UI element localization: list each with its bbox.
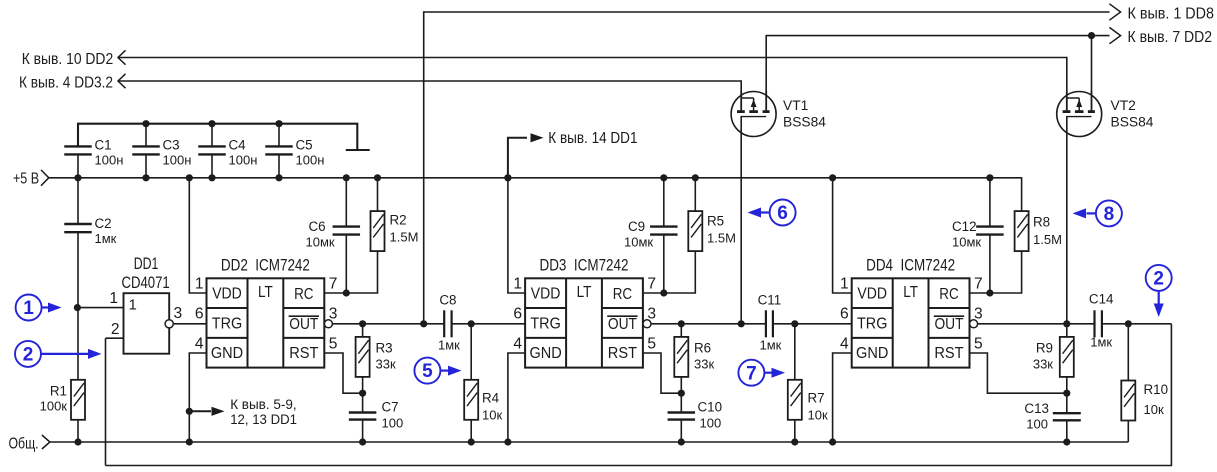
wire DD2 OUT to C8 — [333, 323, 444, 325]
svg-text:7: 7 — [746, 363, 757, 384]
svg-text:7: 7 — [647, 276, 656, 293]
junction ground R1 — [74, 438, 81, 445]
svg-text:DD3 ICM7242: DD3 ICM7242 — [540, 256, 629, 274]
svg-text:К выв. 1 DD8: К выв. 1 DD8 — [1128, 5, 1215, 22]
arrow К выв. 5-9 12 13 DD1 — [189, 410, 211, 412]
svg-text:R3: R3 — [376, 340, 393, 355]
circled node 2 output — [1146, 265, 1172, 291]
wire R1 top lead — [77, 308, 79, 380]
svg-text:1мк: 1мк — [438, 337, 460, 352]
junction ground C13 — [1063, 438, 1070, 445]
resistor R9 — [1060, 337, 1074, 377]
wire C6 bottom lead — [345, 235, 347, 293]
junction rail DD4 VDD feed — [829, 174, 836, 181]
capacitor C9 — [650, 227, 678, 235]
junction ground C7 — [359, 438, 366, 445]
svg-text:C4: C4 — [229, 138, 247, 153]
wire R10 bottom lead — [1127, 421, 1129, 443]
svg-text:RC: RC — [613, 286, 632, 303]
svg-text:R6: R6 — [694, 340, 711, 355]
IC timer DD3 ICM7242 — [525, 278, 651, 367]
svg-text:1мк: 1мк — [1090, 334, 1112, 349]
circled node 2 — [15, 341, 41, 367]
svg-text:BSS84: BSS84 — [1111, 115, 1154, 130]
arrow node 2 — [41, 353, 89, 355]
wire C5 top lead — [278, 124, 280, 146]
circled node 5 — [414, 358, 440, 384]
svg-text:RC: RC — [294, 286, 313, 303]
arrow node 8 — [1087, 212, 1097, 214]
wire C10 bottom lead — [680, 420, 682, 442]
svg-text:1: 1 — [23, 298, 34, 319]
svg-text:6: 6 — [513, 305, 522, 322]
svg-text:3: 3 — [974, 305, 983, 322]
wire DD1 pin2 feedback vertical — [105, 338, 107, 465]
wire R3 bottom lead — [362, 377, 364, 393]
wire DD3 RC pin7 — [643, 292, 664, 294]
chassis terminal bar — [346, 149, 370, 151]
svg-text:R1: R1 — [50, 383, 67, 398]
svg-text:1: 1 — [195, 276, 204, 293]
wire C13 bottom lead — [1066, 420, 1068, 442]
wire net to pin4 DD3.2 horizontal — [118, 80, 741, 82]
svg-text:К выв. 7 DD2: К выв. 7 DD2 — [1128, 29, 1213, 46]
svg-text:C13: C13 — [1024, 401, 1049, 416]
wire R8 top lead — [1021, 177, 1023, 211]
node К выв. 4 DD3.2 chevron — [118, 74, 126, 88]
svg-text:R2: R2 — [390, 213, 407, 228]
junction rail R5 — [692, 174, 699, 181]
wire VT2 drain down from pin7 DD2 net — [1091, 36, 1093, 92]
wire +5V rail — [49, 177, 1022, 179]
circled node 7 — [738, 360, 764, 386]
svg-text:C6: C6 — [309, 219, 326, 234]
wire net to pin7 DD2 horizontal — [766, 35, 1109, 37]
arrow node 6 — [761, 211, 770, 213]
svg-text:5: 5 — [974, 335, 983, 352]
wire DD3 VDD feed — [508, 178, 525, 293]
svg-text:1.5M: 1.5M — [707, 231, 736, 246]
wire C11 to DD4 TRG — [773, 323, 852, 325]
svg-text:C3: C3 — [163, 138, 180, 153]
junction DD4 RC node — [986, 289, 993, 296]
capacitor C10 — [668, 413, 696, 420]
arrow node 7 — [764, 372, 772, 374]
svg-text:5: 5 — [647, 335, 656, 352]
junction C4 bus — [208, 120, 215, 127]
svg-text:1мк: 1мк — [759, 337, 781, 352]
svg-text:2: 2 — [23, 345, 34, 366]
wire DD1 output to DD2 TRG — [173, 323, 206, 325]
svg-text:C1: C1 — [95, 138, 112, 153]
wire C14 to output corner — [1102, 323, 1172, 325]
wire DD2 GND lead — [189, 353, 206, 442]
junction DD3 RC node — [660, 289, 667, 296]
wire R5 top lead — [694, 178, 696, 211]
junction ground R7 — [791, 438, 798, 445]
svg-text:7: 7 — [329, 276, 338, 293]
wire R7 top lead — [794, 324, 796, 380]
svg-text:C2: C2 — [95, 216, 112, 231]
arrow node 2 output — [1158, 291, 1160, 304]
svg-text:C8: C8 — [439, 292, 456, 307]
svg-text:C14: C14 — [1089, 291, 1114, 306]
svg-text:LT: LT — [577, 284, 592, 301]
svg-text:33к: 33к — [376, 356, 396, 371]
wire VT1 gate down — [740, 117, 742, 324]
resistor R4 — [464, 380, 478, 420]
svg-text:4: 4 — [840, 335, 849, 352]
arrow node 5 — [440, 370, 449, 372]
wire R6 bottom lead — [680, 377, 682, 393]
junction R6 top — [678, 320, 685, 327]
svg-text:1: 1 — [109, 290, 118, 307]
svg-text:VDD: VDD — [531, 286, 561, 303]
svg-text:C10: C10 — [698, 400, 723, 415]
capacitor C7 — [349, 413, 377, 420]
circled node 6 — [770, 200, 796, 226]
junction rail C12 — [986, 174, 993, 181]
svg-text:100: 100 — [700, 416, 722, 431]
junction R6 C10 — [678, 390, 685, 397]
svg-text:VT1: VT1 — [783, 98, 808, 113]
svg-text:RST: RST — [934, 345, 963, 362]
svg-text:6: 6 — [777, 203, 788, 224]
capacitor C11 — [766, 310, 773, 337]
svg-text:1мк: 1мк — [95, 231, 117, 246]
svg-text:100н: 100н — [163, 153, 192, 168]
svg-text:TRG: TRG — [212, 316, 242, 333]
svg-text:RC: RC — [939, 286, 958, 303]
svg-text:TRG: TRG — [530, 316, 560, 333]
junction VT2 drain to net — [1088, 32, 1095, 39]
wire DD3 OUT to C11 — [651, 323, 766, 325]
junction ground C10 — [678, 438, 685, 445]
wire C2 top lead — [77, 178, 79, 224]
svg-text:R8: R8 — [1033, 215, 1050, 230]
wire R4 bottom lead — [470, 420, 472, 442]
svg-text:2: 2 — [1153, 269, 1164, 290]
wire DD2 RC pin7 — [324, 292, 346, 294]
svg-text:6: 6 — [195, 305, 204, 322]
junction R7 top — [791, 320, 798, 327]
svg-text:100н: 100н — [229, 153, 258, 168]
wire C2 bottom lead — [77, 232, 79, 307]
svg-text:2: 2 — [111, 321, 120, 338]
circled node 8 — [1096, 200, 1122, 226]
junction К выв. 5-9 12 13 DD1 — [186, 408, 193, 415]
wire C7 top lead — [362, 393, 364, 412]
wire VT1 source up from pin4 DD3.2 net — [740, 80, 742, 91]
wire R4 top lead — [470, 324, 472, 380]
wire ground rail — [49, 441, 1128, 443]
svg-text:100: 100 — [382, 416, 404, 431]
wire R5 bottom lead — [664, 251, 696, 293]
junction ground R4 — [468, 438, 475, 445]
junction VT2 gate node — [1063, 320, 1070, 327]
wire C4 top lead — [211, 124, 213, 146]
svg-text:C12: C12 — [952, 219, 977, 234]
resistor R1 — [71, 380, 85, 420]
junction node 1 — [74, 304, 81, 311]
capacitor C4 — [198, 146, 226, 154]
capacitor C1 — [64, 146, 92, 154]
wire C6 top lead — [345, 178, 347, 227]
svg-text:DD1: DD1 — [134, 254, 159, 273]
wire DD4 OUT to C14 — [978, 323, 1095, 325]
wire DD4 GND lead — [833, 353, 852, 442]
svg-text:33к: 33к — [694, 356, 714, 371]
svg-text:5: 5 — [422, 361, 433, 382]
svg-text:RST: RST — [608, 345, 637, 362]
svg-text:10мк: 10мк — [306, 235, 335, 250]
arrow node 1 — [41, 306, 49, 308]
wire C8 to DD3 TRG — [452, 323, 525, 325]
resistor R5 — [688, 211, 702, 251]
wire C1 bottom lead — [77, 154, 79, 177]
wire DD1 pin2 — [106, 337, 124, 339]
svg-text:100н: 100н — [296, 153, 325, 168]
svg-text:DD4 ICM7242: DD4 ICM7242 — [866, 256, 955, 274]
junction C5 bus — [275, 120, 282, 127]
wire C7 bottom lead — [362, 420, 364, 442]
resistor R7 — [788, 380, 802, 420]
svg-text:OUT: OUT — [608, 316, 637, 333]
resistor R2 — [371, 211, 385, 251]
svg-text:33к: 33к — [1033, 356, 1053, 371]
junction rail DD2 VDD feed — [186, 174, 193, 181]
capacitor C3 — [132, 146, 160, 154]
junction DD8 net tap — [420, 320, 427, 327]
node К выв. 10 DD2 chevron — [118, 50, 126, 64]
svg-text:100: 100 — [1026, 416, 1048, 431]
svg-text:VDD: VDD — [857, 286, 887, 303]
wire К выв. 14 DD1 tap — [508, 138, 527, 178]
capacitor C5 — [265, 146, 293, 154]
svg-text:C5: C5 — [296, 138, 313, 153]
wire VT2 source down from pin10 DD2 net — [1066, 57, 1068, 92]
svg-text:C7: C7 — [382, 400, 399, 415]
junction rail DD3 VDD feed — [504, 174, 511, 181]
wire C13 top lead — [1066, 393, 1068, 413]
wire R9 bottom lead — [1066, 377, 1068, 393]
junction ground DD4 GND — [829, 438, 836, 445]
wire R2 bottom lead — [346, 251, 377, 293]
junction R3 C7 — [359, 390, 366, 397]
wire DD4 VDD feed — [833, 178, 852, 293]
svg-text:12, 13 DD1: 12, 13 DD1 — [230, 411, 297, 427]
transistor VT1 BSS84 — [731, 91, 776, 137]
node +5V chevron — [41, 170, 49, 186]
wire C3 bottom lead — [145, 154, 147, 177]
wire feedback bottom — [106, 324, 1172, 466]
svg-text:1: 1 — [840, 276, 849, 293]
svg-text:VT2: VT2 — [1111, 98, 1136, 113]
junction C3 bus — [142, 120, 149, 127]
svg-text:3: 3 — [174, 305, 183, 322]
junction rail C1/C2 — [74, 174, 81, 181]
svg-text:GND: GND — [529, 345, 561, 362]
node К выв. 7 DD2 chevron — [1109, 27, 1120, 43]
svg-text:7: 7 — [974, 276, 983, 293]
svg-text:1: 1 — [513, 276, 522, 293]
wire C9 bottom lead — [663, 235, 665, 293]
svg-text:3: 3 — [329, 305, 338, 322]
svg-text:К выв. 4 DD3.2: К выв. 4 DD3.2 — [19, 75, 113, 92]
svg-text:BSS84: BSS84 — [783, 115, 826, 130]
wire C3 top lead — [145, 124, 147, 146]
junction rail R2 — [374, 174, 381, 181]
svg-text:6: 6 — [840, 305, 849, 322]
wire decoupling cap bus — [78, 124, 357, 149]
arrow К выв. 14 DD1 — [531, 133, 544, 142]
wire net to pin10 DD2 horizontal — [118, 57, 1067, 59]
svg-text:10к: 10к — [808, 407, 828, 422]
svg-text:R10: R10 — [1144, 382, 1169, 397]
wire C10 top lead — [680, 393, 682, 412]
junction rail C9 — [660, 174, 667, 181]
wire C5 bottom lead — [278, 154, 280, 177]
svg-text:5: 5 — [329, 335, 338, 352]
svg-text:10к: 10к — [482, 407, 502, 422]
wire R6 top lead — [680, 324, 682, 337]
svg-text:К выв. 10 DD2: К выв. 10 DD2 — [22, 51, 114, 68]
svg-text:3: 3 — [647, 305, 656, 322]
junction rail К выв. 14 DD1 — [504, 174, 511, 181]
wire R1 bottom lead — [77, 420, 79, 442]
svg-text:GND: GND — [211, 345, 243, 362]
capacitor C12 — [976, 227, 1004, 235]
junction R4 top — [468, 320, 475, 327]
svg-text:LT: LT — [903, 284, 918, 301]
svg-text:CD4071: CD4071 — [121, 273, 169, 292]
wire R2 top lead — [377, 178, 379, 211]
svg-text:OUT: OUT — [934, 316, 963, 333]
node Общ. chevron — [42, 435, 50, 449]
svg-text:C9: C9 — [628, 219, 645, 234]
svg-text:10к: 10к — [1144, 402, 1164, 417]
svg-text:100к: 100к — [40, 398, 68, 413]
wire C12 top lead — [989, 178, 991, 227]
svg-text:R9: R9 — [1036, 340, 1053, 355]
svg-text:TRG: TRG — [857, 316, 887, 333]
wire net to pin1 DD8 top horizontal — [424, 11, 1110, 13]
wire R10 top lead — [1127, 324, 1129, 381]
svg-text:C11: C11 — [758, 292, 782, 307]
resistor R8 — [1015, 211, 1029, 251]
junction DD2 RC node — [343, 289, 350, 296]
junction R9 C13 — [1063, 390, 1070, 397]
capacitor C14 — [1095, 310, 1102, 337]
svg-text:VDD: VDD — [212, 286, 242, 303]
junction rail C6 — [343, 174, 350, 181]
svg-text:8: 8 — [1104, 204, 1115, 225]
svg-text:10мк: 10мк — [952, 235, 981, 250]
node К выв. 1 DD8 chevron — [1109, 4, 1120, 20]
wire DD2 OUT up to pin1 DD8 net — [423, 11, 425, 324]
wire DD3 RST pin5 — [643, 353, 681, 393]
svg-text:Общ.: Общ. — [9, 436, 39, 453]
svg-text:1.5M: 1.5M — [1033, 232, 1062, 247]
circled node 1 — [16, 295, 42, 321]
wire DD4 RC pin7 — [970, 292, 990, 294]
resistor R10 — [1121, 381, 1135, 421]
svg-text:OUT: OUT — [289, 316, 318, 333]
wire DD4 RST pin5 — [970, 353, 1067, 393]
svg-text:1.5M: 1.5M — [390, 230, 419, 245]
capacitor C13 — [1053, 413, 1081, 420]
wire VT1 drain up to pin7 DD2 net — [765, 35, 767, 92]
resistor R3 — [356, 337, 370, 377]
svg-text:LT: LT — [258, 284, 273, 301]
wire DD2 VDD feed — [189, 178, 206, 293]
wire DD2 RST pin5 — [324, 353, 362, 393]
wire R8 bottom lead — [990, 251, 1022, 293]
svg-text:К выв. 5-9,: К выв. 5-9, — [230, 396, 296, 412]
capacitor C8 — [444, 310, 451, 337]
wire C9 top lead — [663, 178, 665, 227]
junction rail C5 — [275, 174, 282, 181]
capacitor C2 — [64, 224, 92, 232]
wire DD3 GND lead — [508, 353, 525, 442]
IC timer DD4 ICM7242 — [852, 278, 978, 367]
capacitor C6 — [333, 227, 361, 235]
logic gate DD1.1 CD4071 — [124, 293, 174, 354]
IC timer DD2 ICM7242 — [207, 278, 333, 367]
junction ground DD2 GND — [186, 438, 193, 445]
wire R3 top lead — [362, 324, 364, 337]
junction VT1 gate node — [738, 320, 745, 327]
wire C4 bottom lead — [211, 154, 213, 177]
svg-text:R5: R5 — [707, 214, 724, 229]
svg-text:+5 В: +5 В — [13, 171, 39, 188]
wire R7 bottom lead — [794, 420, 796, 442]
resistor R6 — [674, 337, 688, 377]
junction rail C3 — [142, 174, 149, 181]
svg-text:GND: GND — [856, 345, 888, 362]
junction ground DD3 GND — [504, 438, 511, 445]
svg-text:100н: 100н — [95, 153, 124, 168]
svg-text:R7: R7 — [808, 390, 825, 405]
svg-text:DD2 ICM7242: DD2 ICM7242 — [221, 256, 310, 274]
svg-text:1: 1 — [129, 297, 137, 314]
wire DD1 pin1 — [77, 307, 123, 309]
junction R10 top — [1125, 320, 1132, 327]
wire VT2 gate down — [1066, 117, 1068, 324]
svg-text:10мк: 10мк — [624, 235, 653, 250]
svg-text:4: 4 — [513, 335, 522, 352]
junction rail C4 — [208, 174, 215, 181]
transistor VT2 BSS84 — [1057, 91, 1102, 137]
svg-text:К выв. 14 DD1: К выв. 14 DD1 — [548, 130, 637, 147]
wire C12 bottom lead — [989, 235, 991, 293]
svg-text:4: 4 — [195, 335, 204, 352]
svg-text:RST: RST — [289, 345, 318, 362]
wire R9 top lead — [1066, 324, 1068, 337]
svg-text:R4: R4 — [482, 390, 500, 405]
junction R3 top — [359, 320, 366, 327]
